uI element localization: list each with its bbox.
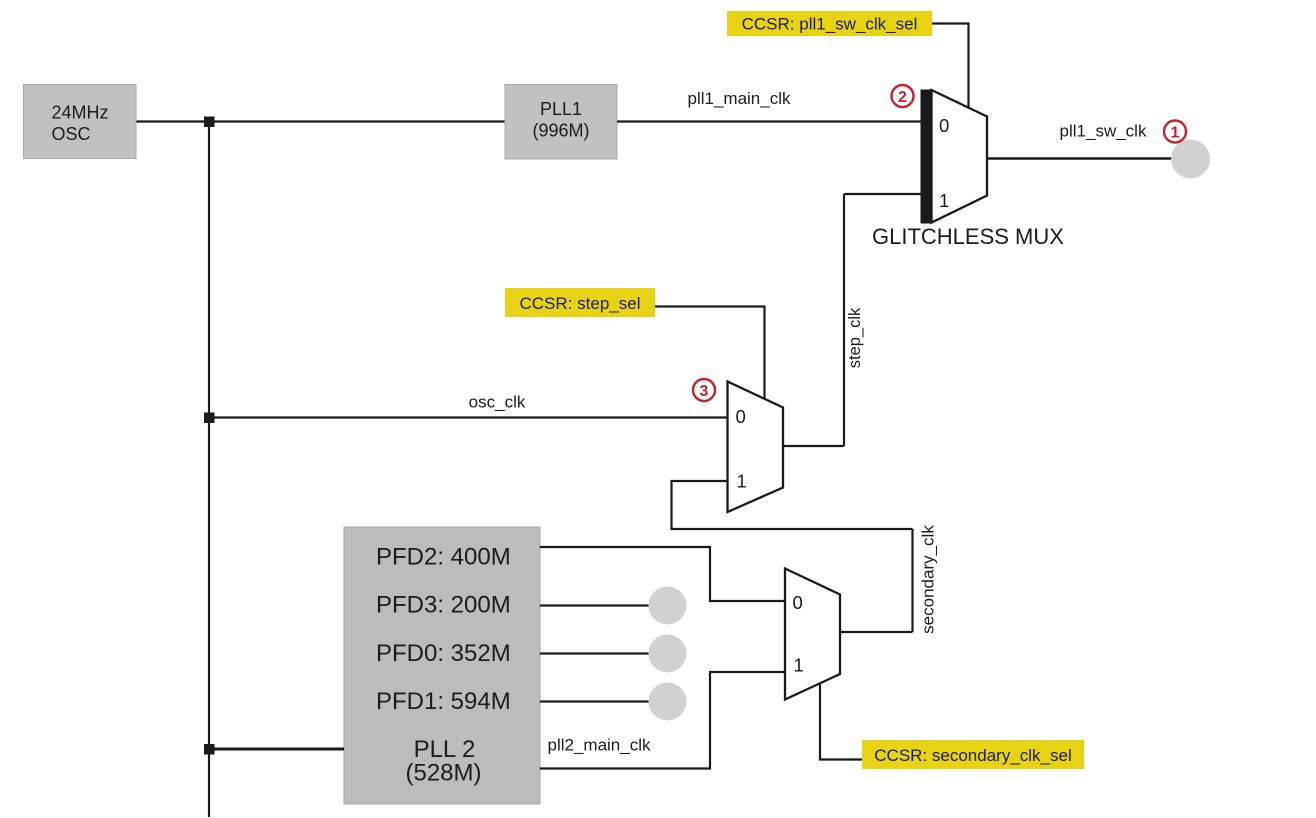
- wire pll1_main_clk: [617, 120, 921, 122]
- svg-text:pll2_main_clk: pll2_main_clk: [548, 736, 651, 755]
- wire step mux output to step_clk: [783, 445, 844, 447]
- wire step_clk into glitchless mux input 1: [844, 193, 921, 195]
- svg-text:(528M): (528M): [405, 760, 481, 787]
- circled 3 marker: [693, 379, 715, 401]
- wire PFD1 stub: [540, 700, 652, 702]
- terminator circle PFD1: [649, 683, 687, 721]
- svg-text:GLITCHLESS MUX: GLITCHLESS MUX: [872, 224, 1064, 249]
- svg-text:0: 0: [736, 406, 746, 427]
- svg-text:0: 0: [939, 115, 949, 136]
- CCSR: secondary_clk_sel register box: [862, 740, 1084, 769]
- wire pll1_sw_clk output: [987, 157, 1172, 159]
- terminator circle pll1_sw_clk: [1171, 140, 1210, 179]
- svg-text:3: 3: [700, 383, 709, 400]
- svg-text:PLL1: PLL1: [540, 99, 582, 119]
- CCSR: pll1_sw_clk_sel register box: [727, 11, 932, 36]
- terminator circle PFD0: [649, 635, 687, 673]
- svg-text:CCSR: step_sel: CCSR: step_sel: [520, 294, 641, 313]
- PLL2 box with PFD outputs: [344, 527, 540, 804]
- wire step_clk vertical: [843, 194, 845, 446]
- svg-text:1: 1: [737, 471, 747, 492]
- svg-text:1: 1: [1171, 125, 1180, 142]
- PLL1 box (996M): [505, 85, 617, 160]
- wire trunk to PLL2 input (thick): [209, 748, 344, 751]
- svg-text:PFD0: 352M: PFD0: 352M: [376, 640, 511, 667]
- junction node on trunk at osc_clk: [204, 413, 215, 424]
- junction node on trunk at PLL2 feed: [204, 744, 215, 755]
- svg-text:CCSR: secondary_clk_sel: CCSR: secondary_clk_sel: [874, 746, 1071, 765]
- svg-text:secondary_clk: secondary_clk: [919, 525, 938, 634]
- junction node at osc output: [204, 117, 215, 128]
- wire PFD0 stub: [540, 652, 652, 654]
- wire osc_clk horizontal: [209, 416, 728, 418]
- svg-text:CCSR: pll1_sw_clk_sel: CCSR: pll1_sw_clk_sel: [742, 15, 918, 34]
- svg-text:PFD3: 200M: PFD3: 200M: [376, 592, 511, 619]
- svg-text:24MHz: 24MHz: [52, 103, 109, 123]
- oscillator box 24MHz OSC: [24, 85, 137, 159]
- wire secondary mux output: [840, 631, 913, 633]
- wire select of glitchless mux: [932, 24, 969, 109]
- wire osc output to junction: [136, 120, 209, 122]
- svg-text:osc_clk: osc_clk: [469, 393, 526, 412]
- CCSR: step_sel register box: [505, 288, 655, 317]
- wire PFD3 stub: [540, 604, 652, 606]
- svg-text:1: 1: [939, 190, 949, 211]
- svg-text:(996M): (996M): [532, 121, 589, 141]
- circled 2 marker: [892, 85, 914, 107]
- svg-text:pll1_sw_clk: pll1_sw_clk: [1060, 122, 1147, 141]
- svg-text:PFD1: 594M: PFD1: 594M: [376, 688, 511, 715]
- wire select of step mux: [655, 307, 765, 399]
- svg-text:2: 2: [898, 89, 907, 106]
- terminator circle PFD3: [649, 587, 687, 625]
- wire PFD2 to secondary mux input 0: [540, 547, 785, 601]
- wire pll2_main_clk to secondary mux input 1: [540, 672, 785, 769]
- svg-text:0: 0: [793, 592, 803, 613]
- mux U2: step mux body: [728, 382, 784, 513]
- wire junction to PLL1 input: [209, 120, 505, 122]
- wire main vertical trunk (osc_clk net): [208, 122, 210, 818]
- svg-text:pll1_main_clk: pll1_main_clk: [688, 89, 791, 108]
- svg-text:1: 1: [794, 655, 804, 676]
- op-amp U1: glitchless mux body: [921, 90, 988, 224]
- wire secondary_clk vertical: [911, 529, 913, 632]
- svg-text:step_clk: step_clk: [846, 307, 864, 368]
- wire secondary_clk into step mux input 1 (elbow): [672, 481, 913, 529]
- circled 1 marker: [1164, 121, 1186, 143]
- mux U3: secondary clk mux body: [785, 569, 840, 700]
- svg-text:OSC: OSC: [52, 124, 91, 144]
- svg-text:PFD2: 400M: PFD2: 400M: [376, 544, 511, 571]
- wire select of secondary mux: [820, 683, 862, 760]
